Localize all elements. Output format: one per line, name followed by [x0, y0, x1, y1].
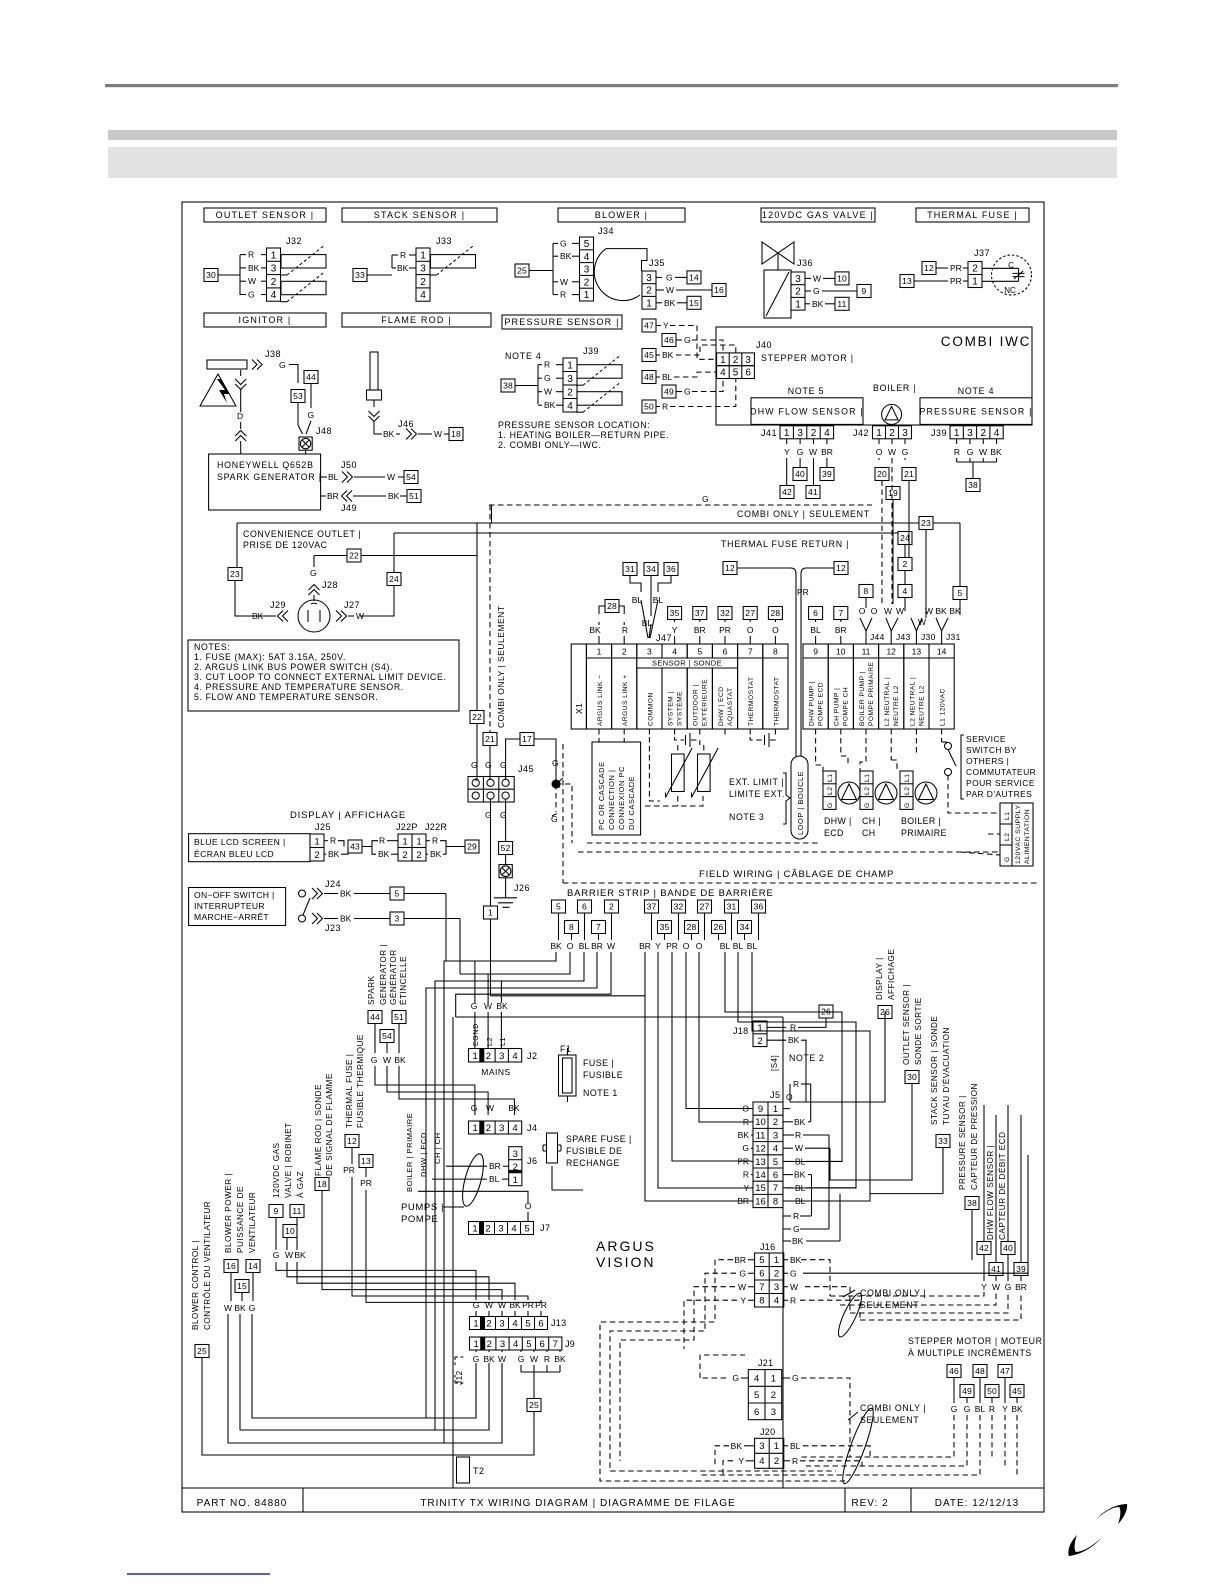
- svg-text:HONEYWELL Q652B: HONEYWELL Q652B: [217, 460, 314, 470]
- svg-text:BR: BR: [1015, 1282, 1027, 1292]
- svg-text:J21: J21: [758, 1358, 773, 1368]
- flame rod symbol: [370, 352, 378, 390]
- svg-text:VALVE | ROBINET: VALVE | ROBINET: [284, 1122, 293, 1198]
- svg-text:6: 6: [773, 1170, 778, 1181]
- tag 21: [902, 468, 916, 481]
- J45 output wires: [490, 799, 492, 907]
- svg-text:COMMUTATEUR: COMMUTATEUR: [966, 767, 1036, 777]
- service switch symbol S1: [945, 743, 952, 750]
- tag 26 (right): [878, 1006, 892, 1019]
- tag 53: [291, 390, 305, 403]
- tag 21 (mid): [483, 733, 497, 746]
- connector J50: [321, 476, 327, 478]
- wires down to J30 J31: [959, 600, 961, 616]
- svg-text:1: 1: [473, 1339, 478, 1350]
- svg-text:4: 4: [567, 401, 573, 412]
- svg-text:12: 12: [755, 1144, 766, 1155]
- svg-text:R: R: [330, 836, 336, 846]
- svg-text:1. FUSE (MAX): 5AT 3.15A, 250: 1. FUSE (MAX): 5AT 3.15A, 250V.: [194, 652, 346, 662]
- svg-text:FLAME ROD | SONDE: FLAME ROD | SONDE: [314, 1084, 323, 1176]
- connector J32: [267, 248, 281, 301]
- svg-text:R: R: [622, 625, 628, 635]
- tag 44 (bottom): [368, 1011, 382, 1024]
- svg-text:VISION: VISION: [596, 1254, 655, 1270]
- tag 18 (bottom): [315, 1178, 329, 1191]
- svg-text:CH | CH: CH | CH: [433, 1132, 442, 1164]
- svg-text:51: 51: [409, 491, 419, 501]
- svg-text:G: G: [702, 494, 709, 504]
- svg-text:MAINS: MAINS: [481, 1067, 510, 1077]
- svg-text:J50: J50: [341, 460, 357, 470]
- svg-text:R: R: [248, 250, 254, 260]
- tag 25 (bottom right): [527, 1399, 541, 1412]
- svg-text:R: R: [954, 447, 960, 457]
- svg-text:18: 18: [317, 1179, 327, 1189]
- svg-text:DISPLAY | AFFICHAGE: DISPLAY | AFFICHAGE: [290, 810, 406, 821]
- svg-text:POMPE PRIMAIRE: POMPE PRIMAIRE: [868, 661, 875, 726]
- tag 12 (bottom): [345, 1135, 359, 1148]
- svg-text:G: G: [310, 568, 317, 578]
- svg-text:G: G: [500, 810, 507, 820]
- label THERMAL FUSE: [916, 208, 1029, 222]
- svg-text:BK: BK: [935, 606, 947, 616]
- svg-text:R: R: [790, 1022, 796, 1032]
- svg-text:G: G: [684, 335, 691, 345]
- svg-text:BK: BK: [731, 1441, 743, 1451]
- svg-text:BL: BL: [733, 941, 744, 951]
- thermal fuse wires right: [352, 1177, 528, 1300]
- tag 49: [662, 385, 676, 398]
- tag 26 (mid): [819, 1005, 833, 1018]
- svg-text:5: 5: [759, 1255, 764, 1266]
- svg-text:G: G: [864, 802, 871, 808]
- svg-text:17: 17: [522, 734, 532, 744]
- svg-text:5: 5: [958, 588, 963, 598]
- svg-text:16: 16: [226, 1261, 236, 1271]
- svg-text:L2: L2: [485, 1037, 494, 1046]
- svg-text:W: W: [992, 1282, 1000, 1292]
- svg-text:BK: BK: [790, 1255, 802, 1265]
- tag 30: [204, 269, 218, 282]
- svg-text:PRESSURE SENSOR |: PRESSURE SENSOR |: [958, 1095, 967, 1190]
- tag 33: [353, 269, 367, 282]
- svg-text:8: 8: [773, 647, 778, 657]
- svg-text:DE SIGNAL DE FLAMME: DE SIGNAL DE FLAMME: [325, 1073, 334, 1176]
- barrier wires descending left group: [444, 952, 556, 1443]
- svg-text:W: W: [485, 1300, 493, 1310]
- svg-text:PART NO. 84880: PART NO. 84880: [197, 1498, 288, 1509]
- svg-text:G: G: [279, 360, 286, 370]
- svg-text:EGND: EGND: [471, 1023, 480, 1046]
- svg-text:W: W: [498, 1300, 506, 1310]
- svg-text:3: 3: [567, 374, 573, 385]
- svg-text:PR: PR: [950, 276, 962, 286]
- svg-text:11: 11: [862, 647, 871, 657]
- svg-text:EXT. LIMIT |: EXT. LIMIT |: [729, 777, 784, 787]
- svg-text:3: 3: [759, 1441, 764, 1452]
- svg-text:Y: Y: [672, 625, 678, 635]
- page header rule: [105, 84, 1118, 87]
- svg-text:43: 43: [350, 842, 360, 852]
- tag 22 (left): [347, 549, 361, 562]
- svg-text:24: 24: [900, 533, 910, 543]
- svg-text:1: 1: [472, 1224, 477, 1235]
- label BLOWER: [558, 208, 685, 222]
- svg-text:22: 22: [349, 551, 359, 561]
- svg-text:G: G: [371, 1055, 378, 1065]
- svg-text:BK: BK: [340, 914, 352, 924]
- label 120VDC GAS VALVE: [761, 208, 875, 222]
- connector J45: [468, 777, 514, 803]
- svg-text:G: G: [473, 1300, 480, 1310]
- J21 wires: [741, 1377, 748, 1379]
- svg-text:1: 1: [757, 1023, 762, 1034]
- svg-text:BK: BK: [664, 298, 676, 308]
- tag 13 (bottom): [359, 1155, 373, 1168]
- svg-text:10: 10: [285, 1226, 295, 1236]
- svg-text:BK: BK: [508, 1103, 520, 1113]
- blower control wire: [202, 1358, 534, 1456]
- svg-text:TRINITY TX WIRING DIAGRAM | DI: TRINITY TX WIRING DIAGRAM | DIAGRAMME DE…: [420, 1498, 735, 1509]
- wire 33 to J33: [367, 274, 392, 276]
- sensor contact pair 1: [675, 737, 700, 745]
- svg-text:5: 5: [524, 1224, 529, 1235]
- svg-text:L1 120VAC: L1 120VAC: [940, 688, 947, 726]
- tag 6: [809, 607, 823, 620]
- svg-text:3: 3: [395, 914, 400, 924]
- stepper dashed bus: [700, 1415, 980, 1475]
- svg-text:O: O: [567, 941, 574, 951]
- svg-text:G: G: [967, 447, 974, 457]
- svg-text:J45: J45: [518, 764, 534, 774]
- pump dashed feeds: [816, 729, 942, 771]
- svg-text:3: 3: [646, 273, 652, 284]
- svg-text:G: G: [684, 387, 691, 397]
- svg-text:DISPLAY |: DISPLAY |: [875, 957, 884, 1000]
- svg-text:FIELD WIRING | CÂBLAGE DE C: FIELD WIRING | CÂBLAGE DE CHAMP: [699, 869, 894, 880]
- svg-text:CONVENIENCE OUTLET |: CONVENIENCE OUTLET |: [243, 529, 361, 539]
- svg-text:46: 46: [949, 1366, 959, 1376]
- svg-text:POMPE ECD: POMPE ECD: [818, 682, 825, 726]
- svg-text:42: 42: [782, 487, 792, 497]
- svg-text:J7: J7: [540, 1223, 551, 1233]
- svg-text:23: 23: [230, 569, 240, 579]
- svg-text:FUSIBLE: FUSIBLE: [583, 1070, 623, 1080]
- svg-text:53: 53: [293, 391, 303, 401]
- service switch dashed wire to supply: [948, 775, 1000, 813]
- svg-text:R: R: [662, 402, 668, 412]
- svg-text:48: 48: [644, 372, 654, 382]
- svg-text:DHW | ECD: DHW | ECD: [718, 686, 725, 726]
- svg-text:NC: NC: [1004, 286, 1016, 295]
- tag 23 (right): [919, 517, 933, 530]
- connector J39 (left): [563, 358, 577, 412]
- svg-text:1: 1: [314, 836, 319, 847]
- svg-text:BL: BL: [747, 941, 758, 951]
- tag 4: [898, 585, 912, 598]
- svg-text:W: W: [560, 277, 568, 287]
- svg-text:2: 2: [903, 559, 908, 569]
- svg-text:TUYAU D'ÉVACUATION: TUYAU D'ÉVACUATION: [941, 1027, 951, 1125]
- tag 9 (bottom): [269, 1205, 283, 1218]
- svg-text:SENSOR | SONDE: SENSOR | SONDE: [652, 659, 722, 668]
- svg-text:BL: BL: [662, 372, 673, 382]
- svg-text:7: 7: [773, 1183, 778, 1194]
- svg-text:G: G: [1005, 1282, 1012, 1292]
- tag 5 (display row): [390, 887, 404, 900]
- svg-text:FUSIBLE THERMIQUE: FUSIBLE THERMIQUE: [356, 1034, 365, 1128]
- connector J5: [753, 1102, 783, 1208]
- svg-text:J29: J29: [270, 600, 286, 610]
- svg-text:1: 1: [774, 1441, 779, 1452]
- svg-text:ECD: ECD: [824, 828, 844, 838]
- svg-text:31: 31: [727, 902, 737, 912]
- tag 38 (left): [501, 379, 515, 392]
- svg-text:COMBI ONLY |: COMBI ONLY |: [860, 1403, 926, 1413]
- svg-text:1: 1: [473, 1319, 478, 1330]
- lasso ellipse small: [834, 1291, 865, 1340]
- svg-text:COMBI ONLY | SEULEMENT: COMBI ONLY | SEULEMENT: [737, 509, 870, 519]
- switch J23: [299, 915, 306, 922]
- wire 12 to J37-2: [936, 267, 948, 269]
- svg-text:1: 1: [784, 428, 790, 439]
- connector J41: [780, 426, 834, 439]
- J5 below wires R G BK: [783, 1215, 791, 1217]
- 120VAC supply label: [1012, 803, 1033, 866]
- barrier BL wires to J5 right: [725, 952, 842, 1162]
- tag 24 (right): [898, 532, 912, 545]
- tag 25 (bottom left): [195, 1345, 209, 1358]
- svg-text:4: 4: [774, 1296, 779, 1307]
- svg-text:1: 1: [416, 836, 421, 847]
- svg-text:J13: J13: [551, 1318, 566, 1328]
- svg-text:DHW | ECD: DHW | ECD: [419, 1132, 428, 1177]
- svg-text:DU CASCADE: DU CASCADE: [627, 776, 636, 830]
- svg-text:BK: BK: [383, 429, 395, 439]
- gas valve symbol: [762, 242, 794, 264]
- connector J34: [580, 237, 594, 301]
- tag 54 (bottom): [380, 1030, 394, 1043]
- svg-text:120VDC GAS VALVE |: 120VDC GAS VALVE |: [762, 210, 874, 220]
- svg-text:14: 14: [937, 647, 947, 657]
- DHW flow sensor box: [751, 398, 863, 425]
- svg-text:MARCHE−ARRÊT: MARCHE−ARRÊT: [194, 912, 269, 922]
- svg-text:32: 32: [674, 902, 684, 912]
- svg-text:2: 2: [609, 902, 614, 912]
- svg-text:4: 4: [994, 428, 1000, 439]
- connector J36: [791, 272, 805, 310]
- svg-text:J22P: J22P: [396, 822, 418, 832]
- svg-text:W: W: [979, 447, 987, 457]
- svg-text:J41: J41: [761, 428, 777, 438]
- wires 43 to J22P: [362, 841, 378, 847]
- svg-text:BK: BK: [550, 941, 562, 951]
- tag 11 (bottom): [290, 1205, 304, 1218]
- svg-text:G: G: [813, 286, 820, 296]
- connector J49: [321, 495, 326, 497]
- svg-text:15: 15: [755, 1183, 766, 1194]
- svg-text:9: 9: [758, 1104, 763, 1115]
- 120VAC supply connector: [1000, 803, 1012, 866]
- svg-text:PR: PR: [737, 1156, 749, 1166]
- svg-text:16: 16: [755, 1196, 766, 1207]
- svg-text:30: 30: [206, 270, 216, 280]
- tag 13 thermal fuse: [900, 275, 914, 288]
- svg-text:R: R: [560, 290, 566, 300]
- lasso ellipse large: [838, 1406, 879, 1486]
- svg-text:BK: BK: [509, 1300, 521, 1310]
- COMBI IWC enclosure: [716, 327, 1032, 425]
- svg-text:33: 33: [938, 1136, 948, 1146]
- tag 40 (mid): [793, 468, 807, 481]
- svg-text:BL: BL: [975, 1404, 986, 1414]
- svg-text:BR: BR: [821, 447, 833, 457]
- svg-text:BK: BK: [394, 1055, 406, 1065]
- J5 left pin labels: [751, 1108, 753, 1110]
- svg-text:5: 5: [584, 239, 590, 250]
- svg-text:4: 4: [512, 1123, 517, 1134]
- connector J40 stepper motor: [717, 353, 755, 366]
- svg-text:NOTE 4: NOTE 4: [958, 386, 995, 396]
- svg-text:48: 48: [975, 1366, 985, 1376]
- svg-text:DHW FLOW SENSOR |: DHW FLOW SENSOR |: [750, 406, 864, 416]
- svg-text:15: 15: [689, 298, 699, 308]
- connector J9: [470, 1337, 562, 1350]
- svg-text:6: 6: [759, 1269, 764, 1280]
- svg-text:1: 1: [420, 250, 426, 261]
- svg-text:3: 3: [584, 265, 590, 276]
- svg-text:W: W: [790, 1282, 798, 1292]
- svg-text:O: O: [772, 625, 779, 635]
- svg-text:1: 1: [771, 1373, 776, 1384]
- svg-text:3: 3: [771, 1407, 776, 1418]
- svg-text:5: 5: [773, 1157, 778, 1168]
- svg-text:3: 3: [500, 1339, 505, 1350]
- tag 16: [224, 1260, 238, 1273]
- svg-text:47: 47: [1000, 1366, 1010, 1376]
- svg-text:8: 8: [759, 1296, 764, 1307]
- svg-text:BK: BK: [544, 400, 556, 410]
- svg-text:R: R: [793, 1211, 799, 1221]
- svg-text:W: W: [607, 941, 615, 951]
- svg-text:2: 2: [486, 1051, 491, 1062]
- svg-text:25: 25: [197, 1346, 207, 1356]
- svg-text:G: G: [485, 810, 492, 820]
- field wiring dashed boundary: [562, 744, 564, 883]
- svg-text:J33: J33: [436, 236, 452, 246]
- wire 13 to J37-1: [914, 280, 948, 282]
- svg-text:BK: BK: [662, 350, 674, 360]
- svg-text:BLOWER CONTROL |: BLOWER CONTROL |: [191, 1240, 200, 1330]
- svg-text:BOILER |: BOILER |: [901, 816, 941, 826]
- svg-text:28: 28: [770, 608, 780, 618]
- footer blue line: [127, 1573, 270, 1575]
- svg-text:[S4]: [S4]: [770, 1055, 779, 1071]
- svg-text:Y: Y: [740, 1295, 746, 1305]
- svg-text:14: 14: [755, 1170, 766, 1181]
- svg-text:32: 32: [720, 608, 730, 618]
- svg-text:PRISE DE 120VAC: PRISE DE 120VAC: [243, 540, 328, 550]
- svg-text:2: 2: [733, 355, 739, 366]
- svg-text:1: 1: [473, 1051, 478, 1062]
- svg-text:2: 2: [402, 850, 407, 861]
- svg-text:J46: J46: [398, 419, 414, 429]
- X1 dashed drops: [598, 729, 600, 742]
- svg-text:2: 2: [416, 850, 421, 861]
- svg-text:J28: J28: [322, 580, 338, 590]
- svg-text:10: 10: [755, 1117, 766, 1128]
- svg-text:G: G: [793, 1224, 800, 1234]
- NTI logo swoosh: [1097, 1504, 1127, 1524]
- wire J35-3 to tag 14: [656, 276, 662, 278]
- svg-text:PR: PR: [360, 1178, 372, 1188]
- svg-text:BR: BR: [639, 941, 651, 951]
- svg-text:5: 5: [395, 889, 400, 899]
- svg-text:28: 28: [607, 601, 617, 611]
- svg-text:W: W: [666, 285, 674, 295]
- spare fuse symbol: [547, 1133, 558, 1163]
- svg-text:J27: J27: [344, 600, 360, 610]
- svg-text:Y: Y: [743, 1183, 749, 1193]
- svg-text:3: 3: [498, 1224, 503, 1235]
- svg-text:W: W: [884, 606, 892, 616]
- svg-text:46: 46: [664, 335, 674, 345]
- svg-text:J20: J20: [760, 1427, 775, 1437]
- svg-text:R: R: [743, 1170, 749, 1180]
- wire J35-2 to tag 16: [656, 289, 664, 291]
- svg-text:COMBI IWC: COMBI IWC: [941, 334, 1031, 349]
- connector J6: [509, 1147, 522, 1186]
- tag 30 (right): [905, 1071, 919, 1084]
- svg-text:50: 50: [644, 402, 654, 412]
- svg-text:R: R: [743, 1117, 749, 1127]
- svg-text:J47: J47: [656, 633, 672, 643]
- svg-text:PR: PR: [522, 1300, 534, 1310]
- tag 18 (top): [449, 428, 463, 441]
- tags above X1 row: [605, 600, 619, 613]
- svg-text:DHW |: DHW |: [824, 816, 852, 826]
- svg-text:BK: BK: [589, 625, 601, 635]
- svg-text:37: 37: [647, 902, 657, 912]
- svg-text:POUR SERVICE: POUR SERVICE: [966, 778, 1035, 788]
- svg-text:L1: L1: [864, 773, 871, 782]
- honeywell spark generator box: [209, 454, 321, 510]
- svg-text:SPARK GENERATOR |: SPARK GENERATOR |: [217, 472, 322, 482]
- svg-text:5: 5: [556, 902, 561, 912]
- svg-text:J6: J6: [527, 1156, 538, 1166]
- tag 46: [662, 334, 676, 347]
- svg-text:L2 NEUTRAL |: L2 NEUTRAL |: [884, 677, 891, 726]
- svg-text:L2: L2: [864, 786, 871, 795]
- svg-text:W: W: [248, 276, 256, 286]
- svg-text:6: 6: [754, 1407, 759, 1418]
- svg-text:G: G: [666, 272, 673, 282]
- svg-text:1: 1: [876, 428, 882, 439]
- svg-text:1: 1: [646, 298, 652, 309]
- svg-text:NOTE 3: NOTE 3: [729, 812, 764, 822]
- tag 12 left and PR loop wires: [723, 562, 737, 575]
- connector J35: [642, 271, 656, 309]
- svg-text:À GAZ: À GAZ: [295, 1171, 305, 1198]
- svg-text:POMPE: POMPE: [401, 1214, 438, 1225]
- svg-text:BOILER PUMP |: BOILER PUMP |: [859, 671, 866, 726]
- svg-text:PC OR CASCADE: PC OR CASCADE: [597, 761, 606, 830]
- svg-text:BL: BL: [579, 941, 590, 951]
- svg-text:21: 21: [904, 469, 914, 479]
- svg-text:15: 15: [237, 1281, 247, 1291]
- svg-text:BARRIER STRIP | BANDE DE BA: BARRIER STRIP | BANDE DE BARRIÈRE: [567, 888, 774, 899]
- svg-text:38: 38: [968, 480, 978, 490]
